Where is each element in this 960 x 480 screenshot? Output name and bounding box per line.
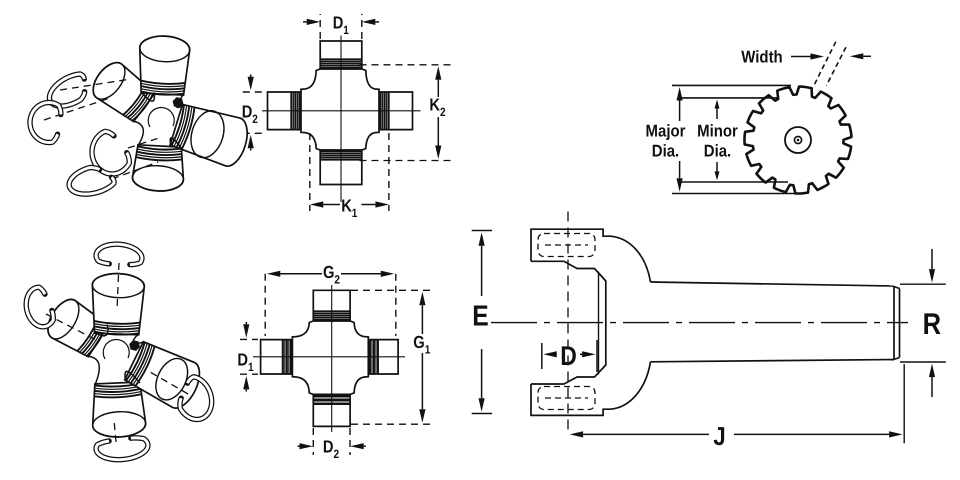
svg-text:D: D xyxy=(560,341,577,371)
svg-text:E: E xyxy=(472,301,488,333)
svg-text:Major: Major xyxy=(646,122,686,141)
svg-text:Dia.: Dia. xyxy=(704,142,731,161)
svg-text:Dia.: Dia. xyxy=(652,142,679,161)
svg-text:R: R xyxy=(923,308,942,341)
svg-text:J: J xyxy=(713,421,725,451)
svg-text:Width: Width xyxy=(741,48,782,67)
svg-text:Minor: Minor xyxy=(697,122,738,141)
